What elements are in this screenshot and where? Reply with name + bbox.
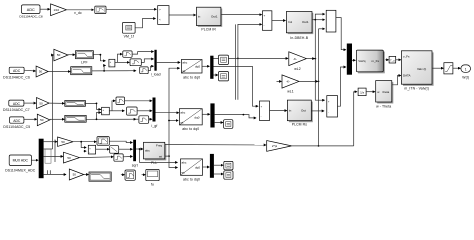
relational operator block REL1 bbox=[158, 6, 169, 25]
mux M5 sqrt (black bar) bbox=[132, 140, 138, 168]
wire dq0-3 to demux D4 bbox=[203, 166, 210, 168]
svg-text:abc to dq0: abc to dq0 bbox=[183, 177, 200, 181]
svg-text:50: 50 bbox=[40, 118, 44, 122]
subsystem PLCM Rs bbox=[287, 100, 312, 127]
wire ADC1 to gain1 bbox=[40, 8, 50, 10]
svg-text:Out: Out bbox=[301, 109, 306, 113]
svg-text:-: - bbox=[261, 116, 262, 119]
wire vd riser to sum S1 input 2 bbox=[238, 24, 262, 58]
svg-text:abc: abc bbox=[182, 61, 187, 65]
svg-text:abc: abc bbox=[182, 161, 187, 165]
wire wL2 to V1 bbox=[306, 58, 314, 60]
svg-text:fu: fu bbox=[151, 183, 154, 187]
svg-text:wt: wt bbox=[182, 171, 185, 175]
svg-text:VM_1f: VM_1f bbox=[124, 35, 134, 39]
display block sq3 bbox=[224, 120, 233, 129]
wire T_u to m_ITN block bbox=[396, 59, 401, 61]
wire 1/z to theta bbox=[366, 91, 375, 93]
wire ADC4 to gain G5 bbox=[24, 118, 37, 120]
svg-text:DS1104ADC_C5: DS1104ADC_C5 bbox=[3, 125, 30, 129]
transform block abc to dq0 (3) bbox=[181, 159, 203, 182]
svg-text:abc: abc bbox=[180, 110, 185, 114]
svg-text:i_load: i_load bbox=[151, 72, 161, 76]
wire F6 to mux M5 input3 bbox=[123, 155, 132, 157]
svg-text:-K-: -K- bbox=[286, 80, 290, 84]
gain G4 50 bbox=[37, 98, 50, 109]
wire M4 to abc-to-dq0 (2) bbox=[156, 112, 179, 114]
wire PLCM Rs to sum S4 bbox=[311, 110, 324, 112]
subsystem In-DBEH-B bbox=[286, 12, 313, 40]
filter block F2 bbox=[65, 115, 86, 122]
svg-text:+: + bbox=[264, 14, 266, 18]
wire G6 junction to filter FD and sum S6 bbox=[73, 141, 96, 151]
svg-text:Valv (t): Valv (t) bbox=[417, 67, 426, 71]
svg-text:DS1104ADC_C8: DS1104ADC_C8 bbox=[19, 15, 42, 19]
mux M1 bbox=[326, 10, 336, 32]
rate transition C bbox=[140, 67, 149, 74]
svg-text:ADC: ADC bbox=[13, 102, 21, 106]
wire sqrt junction to dq0-4 abc input bbox=[140, 149, 178, 162]
wire G4 to filter F1 bbox=[49, 102, 64, 104]
scope block fu bbox=[142, 169, 160, 186]
wire gain1 to ZOH, net v_dc bbox=[67, 10, 94, 15]
svg-text:-: - bbox=[110, 65, 111, 68]
display block sq4 bbox=[224, 161, 233, 169]
wire G8 to filter F7 bbox=[84, 174, 89, 176]
wire m_ITN to saturation bbox=[432, 67, 443, 69]
subsystem w - Theta bbox=[376, 81, 394, 109]
gain wL1 bbox=[277, 75, 300, 94]
subsystem VaVq / m_Fs bbox=[356, 50, 384, 73]
vertical net V2 bbox=[318, 29, 320, 146]
svg-text:in: in bbox=[289, 109, 292, 113]
svg-text:-: - bbox=[328, 112, 329, 115]
sum block S6 bbox=[88, 145, 95, 154]
svg-text:wL2: wL2 bbox=[294, 67, 301, 71]
svg-text:v_Fs: v_Fs bbox=[403, 55, 410, 59]
svg-text:1: 1 bbox=[465, 67, 467, 71]
gain G2 50 bbox=[36, 66, 48, 77]
svg-text:-: - bbox=[89, 151, 90, 154]
wire M5 to PLL bbox=[136, 148, 143, 150]
wire comparator S4 to M2 input 2 bbox=[338, 67, 346, 106]
wire SAT1 to outport bbox=[453, 67, 460, 69]
svg-text:dq0: dq0 bbox=[194, 115, 199, 119]
svg-text:abc: abc bbox=[145, 148, 150, 152]
wire C3 input from F2 line bbox=[136, 118, 138, 120]
svg-text:wt: wt bbox=[182, 69, 185, 73]
wire LPF to sum S2 bbox=[93, 55, 105, 61]
svg-text:50: 50 bbox=[67, 156, 71, 160]
svg-text:-: - bbox=[264, 24, 265, 28]
wire G7 to block F6 bbox=[80, 156, 114, 159]
gain block T_u bbox=[389, 56, 396, 63]
wt riser net bbox=[168, 68, 179, 157]
wire ADC3 to gain G4 bbox=[24, 102, 36, 104]
wire S1 to In-DBEH-B bbox=[272, 20, 286, 22]
svg-text:Freq: Freq bbox=[156, 143, 163, 147]
riser from MUX ADC to gain G3 bbox=[52, 55, 55, 149]
display block sq1 bbox=[219, 55, 229, 64]
sum block S4 bbox=[327, 96, 338, 117]
gain G5 50 bbox=[37, 114, 50, 126]
svg-text:ADC: ADC bbox=[13, 119, 21, 123]
ADC block DS1104ADC_C8 bbox=[19, 5, 42, 19]
wire slope to mux M5 input2 bbox=[119, 148, 133, 150]
display block sq5 bbox=[224, 171, 233, 179]
svg-text:wt: wt bbox=[180, 120, 183, 124]
svg-text:1/z: 1/z bbox=[360, 91, 365, 95]
wire VaVq to T_u bbox=[385, 59, 388, 61]
wire FD to mux M5 input1 bbox=[109, 141, 132, 142]
wire freq riser to 1/z bbox=[354, 92, 357, 146]
wire V2 riser to mux M1 input 3 bbox=[319, 28, 325, 30]
vertical net V1 bbox=[315, 20, 324, 101]
wire REL1 to PLCM IR bbox=[169, 14, 196, 16]
svg-text:Out1: Out1 bbox=[211, 14, 218, 18]
svg-text:dq0: dq0 bbox=[195, 166, 200, 170]
sum block S1 bbox=[262, 11, 272, 31]
svg-text:In1: In1 bbox=[288, 20, 293, 24]
outport W(t) bbox=[461, 65, 471, 80]
svg-text:theta: theta bbox=[383, 90, 390, 94]
svg-text:In-DBEH-B: In-DBEH-B bbox=[290, 36, 308, 40]
svg-text:m_Fs: m_Fs bbox=[372, 59, 380, 63]
gain G3 50 bbox=[54, 49, 68, 61]
demux D1 (black bar) bbox=[210, 56, 213, 79]
gain 2pi bbox=[267, 141, 292, 152]
gain G7 50 bbox=[64, 152, 80, 163]
wire gain G2 to notch filter bbox=[48, 71, 70, 73]
demux D2 bottom output to display sq3 bbox=[215, 122, 223, 124]
gain G1 1/10 bbox=[51, 4, 67, 16]
svg-text:DATA: DATA bbox=[403, 74, 411, 78]
filter block F1 bbox=[65, 101, 86, 107]
mux M4 i_gf (black bar) bbox=[151, 98, 157, 128]
rate transition C3 bbox=[139, 116, 149, 124]
svg-text:Out1: Out1 bbox=[302, 20, 309, 24]
wire S6 to slope block bbox=[96, 148, 110, 150]
svg-text:VaVq: VaVq bbox=[358, 59, 365, 63]
svg-text:W(t): W(t) bbox=[462, 76, 469, 80]
svg-text:1/10: 1/10 bbox=[53, 8, 59, 12]
svg-text:-K-: -K- bbox=[293, 57, 297, 61]
wire F1 to sum S5 bbox=[85, 103, 100, 109]
svg-text:sqrt: sqrt bbox=[132, 163, 138, 167]
subsystem PLCM IR bbox=[197, 7, 223, 31]
demux D2 (black bar) bbox=[210, 103, 214, 127]
saturation block SAT1 bbox=[444, 63, 453, 74]
wire VM_1f to relational block bbox=[135, 19, 155, 28]
mux M3 i_load (black bar) bbox=[151, 50, 161, 77]
demux D4 (black bar) bbox=[210, 154, 214, 178]
constant block VM_1f bbox=[123, 22, 136, 38]
svg-text:dq0: dq0 bbox=[195, 65, 200, 69]
wire M1 to mux M2 bbox=[336, 18, 346, 50]
wire theta to DATA input bbox=[392, 76, 401, 85]
wire MUX ADC to demux D3 bbox=[31, 159, 38, 161]
svg-text:DS1104MUX_ADC: DS1104MUX_ADC bbox=[5, 168, 36, 172]
wire S2 to rate blocks A and B bbox=[115, 54, 129, 62]
demux D1 mid output wire down to sum S3 bbox=[214, 66, 259, 106]
ADC block DS1104ADC_C5 bbox=[3, 117, 30, 129]
wire ADC2 to gain bbox=[24, 69, 35, 72]
svg-text:>: > bbox=[159, 8, 161, 12]
svg-text:wt: wt bbox=[159, 154, 162, 158]
filter block notch bbox=[71, 67, 92, 75]
demux D3 (black bar) bbox=[39, 139, 44, 179]
gain wL2 bbox=[289, 52, 307, 71]
wire 2pi to freq riser bbox=[292, 145, 354, 147]
demux D1 bottom output to scope sq2 bbox=[214, 74, 218, 76]
svg-text:MUX ADC: MUX ADC bbox=[13, 159, 29, 163]
svg-text:T_u: T_u bbox=[390, 58, 395, 62]
gain G8 50 bbox=[69, 169, 84, 180]
wire M2 to VaVq block bbox=[352, 59, 355, 61]
svg-text:DS1104ADC_C6: DS1104ADC_C6 bbox=[3, 75, 30, 79]
rate transition block X1 bbox=[121, 170, 135, 180]
demux D2 mid output to sum S3 input 2 bbox=[215, 114, 256, 118]
wires A B C to mux M3 bbox=[132, 52, 153, 71]
wire ZOH1 to relational block bbox=[106, 8, 156, 10]
subsystem PLL bbox=[144, 142, 167, 165]
svg-text:PLL: PLL bbox=[151, 161, 157, 165]
sum block S5 bbox=[102, 107, 110, 115]
wire PLL wt output to dq0-4 wt bbox=[165, 156, 178, 167]
svg-text:wL1: wL1 bbox=[287, 90, 294, 94]
filter block FD bbox=[97, 137, 109, 146]
wire dq0-2 to demux D2 bbox=[202, 113, 210, 115]
svg-text:PLCM Rs: PLCM Rs bbox=[292, 123, 308, 127]
wire G5 to filter F2 bbox=[50, 118, 64, 120]
rate block F6 bbox=[114, 154, 123, 161]
svg-text:50: 50 bbox=[61, 140, 65, 144]
mux M2 (black bar) bbox=[347, 44, 352, 75]
filter block LPF bbox=[76, 51, 94, 65]
svg-text:50: 50 bbox=[73, 173, 77, 177]
wire G3 to LPF bbox=[68, 54, 75, 56]
ADC block DS1104ADC_C7 bbox=[3, 100, 30, 112]
rate transition B3 bbox=[127, 107, 138, 115]
unit delay 1/z bbox=[358, 88, 366, 96]
svg-text:LPF: LPF bbox=[81, 61, 88, 65]
svg-text:i_gf: i_gf bbox=[151, 124, 157, 128]
svg-text:DS1104ADC_C7: DS1104ADC_C7 bbox=[3, 108, 30, 112]
wires S5 to rate blocks A3 B3 bbox=[109, 101, 124, 111]
svg-text:abc to dq0: abc to dq0 bbox=[182, 127, 199, 131]
demux D1 top output wire to wL2 gain bbox=[214, 57, 288, 59]
svg-text:50: 50 bbox=[39, 70, 43, 74]
wire notch out with branch to sum S2 bbox=[92, 65, 136, 71]
wire Out1 junction to mux M1 inputs bbox=[312, 14, 325, 21]
wire wL1 to V2 bbox=[299, 80, 318, 82]
demux D3 outputs bbox=[44, 140, 66, 175]
svg-text:50: 50 bbox=[57, 53, 61, 57]
wire PLL Freq to gain 2pi bbox=[165, 144, 266, 147]
svg-text:v_dc: v_dc bbox=[74, 11, 82, 15]
subsystem m_ITN - Valv(t) bbox=[401, 51, 433, 91]
rate transition B bbox=[130, 59, 141, 66]
filter block F7 bbox=[89, 172, 111, 181]
slope block bbox=[110, 146, 119, 154]
wires A3 B3 C3 to mux M4 bbox=[125, 101, 152, 119]
MUX ADC block bbox=[5, 155, 36, 172]
svg-text:50: 50 bbox=[39, 101, 43, 105]
wire dq0-1 to demux D1 bbox=[202, 65, 209, 67]
sum block S2 bbox=[109, 59, 115, 67]
transform block abc to dq0 (2) bbox=[179, 109, 202, 131]
ADC block DS1104ADC_C6 bbox=[3, 67, 30, 79]
svg-text:in: in bbox=[198, 14, 201, 18]
rate transition A3 bbox=[116, 97, 125, 105]
wire PLCM IR to sum S1 bbox=[221, 14, 262, 16]
wire M3 to abc-to-dq0 block bbox=[157, 61, 180, 63]
svg-text:-: - bbox=[103, 112, 104, 115]
transform block abc to dq0 (1) bbox=[181, 60, 202, 80]
wire F2 long with branch to sum S5 bbox=[86, 113, 136, 121]
demux D4 outputs to displays bbox=[214, 165, 223, 174]
wire S3 to PLCM Rs bbox=[270, 110, 287, 112]
svg-text:abc to dq0: abc to dq0 bbox=[183, 75, 200, 79]
rate transition A bbox=[123, 51, 132, 57]
svg-text:PLCM IR: PLCM IR bbox=[201, 28, 216, 32]
rate transition block ZOH1 bbox=[95, 6, 106, 14]
svg-text:w - Theta: w - Theta bbox=[376, 104, 391, 108]
svg-text:2*pi: 2*pi bbox=[272, 144, 278, 148]
gain G6 50 bbox=[58, 137, 73, 146]
sum block S3 bbox=[260, 101, 270, 121]
svg-text:ADC: ADC bbox=[27, 8, 35, 12]
svg-text:<: < bbox=[159, 17, 161, 21]
svg-text:ADC: ADC bbox=[13, 69, 21, 73]
display block sq2 bbox=[219, 72, 229, 81]
svg-text:m_ITN - Valv(t): m_ITN - Valv(t) bbox=[404, 87, 429, 91]
